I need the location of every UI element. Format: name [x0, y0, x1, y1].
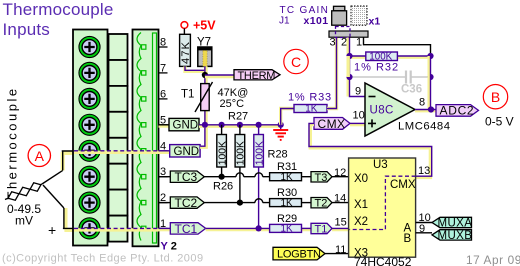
component Y7	[197, 37, 212, 67]
junction output/ADC2	[428, 106, 434, 112]
svg-text:CMX: CMX	[390, 179, 416, 191]
connector Y2 inner outline	[153, 33, 157, 243]
wire output vertical	[429, 56, 430, 109]
wire CMX to op-amp pin 10	[350, 123, 365, 124]
dashed net line pin 4	[74, 151, 170, 153]
capacitor C36 (disabled)	[350, 71, 431, 96]
net label TC3	[159, 170, 205, 184]
svg-text:11: 11	[335, 244, 346, 256]
wire node to THERM label	[205, 75, 234, 77]
junction TC2/R27	[237, 200, 243, 206]
svg-text:8: 8	[160, 37, 166, 49]
jumper J1 header bar	[329, 31, 368, 37]
svg-text:Inputs: Inputs	[3, 20, 51, 39]
svg-text:1K: 1K	[281, 224, 293, 235]
op-amp U8C	[365, 83, 450, 136]
svg-text:8: 8	[419, 97, 425, 109]
svg-text:T1: T1	[315, 224, 328, 236]
resistor R30 1K	[270, 187, 311, 209]
svg-text:mV: mV	[15, 214, 33, 228]
svg-text:100K: 100K	[236, 141, 247, 165]
wire TC3 row	[204, 176, 269, 178]
svg-text:+5V: +5V	[193, 19, 216, 33]
U3 pin B stub	[416, 232, 432, 234]
thermistor T1	[181, 82, 213, 112]
IC U3 74HC4052	[349, 158, 416, 266]
junction R27 top	[237, 122, 243, 128]
svg-text:U3: U3	[373, 159, 388, 171]
net label MUXB	[432, 230, 472, 242]
svg-text:X0: X0	[354, 173, 368, 185]
label 0-49.5 mV	[7, 202, 41, 228]
wire feedback left vertical	[347, 56, 350, 77]
svg-text:1: 1	[356, 37, 362, 49]
connector pin stubs and numbers	[159, 37, 168, 230]
resistor R26 100K	[217, 125, 229, 177]
net label TC1 (highlighted)	[159, 222, 206, 236]
junction C36 left	[346, 74, 352, 80]
net label MUXA	[432, 217, 472, 229]
svg-text:MUXA: MUXA	[438, 218, 473, 230]
svg-text:THERM: THERM	[238, 70, 276, 82]
svg-text:Thermocouple: Thermocouple	[5, 86, 20, 199]
junction R32 left	[346, 53, 352, 59]
svg-text:C: C	[291, 54, 301, 70]
svg-text:CMX: CMX	[318, 117, 346, 131]
svg-text:X1: X1	[354, 199, 368, 211]
U3 internal dashed CMX route	[350, 176, 416, 229]
thermocouple junction diamonds	[8, 183, 41, 200]
svg-text:Y 2: Y 2	[161, 240, 177, 252]
resistor R29 1K (highlighted)	[270, 213, 311, 235]
connector Y2 wavy edge	[137, 33, 141, 241]
thermocouple sensor lead wire	[5, 170, 64, 208]
dashed net line pin 1	[74, 228, 159, 230]
svg-text:U8C: U8C	[370, 105, 394, 117]
junction TC1/R28	[256, 225, 262, 231]
svg-text:47K: 47K	[180, 41, 192, 64]
svg-text:100K: 100K	[254, 141, 265, 165]
wire Y7 to THERM node	[205, 66, 206, 124]
resistor R28 100K (highlighted)	[254, 125, 265, 229]
svg-text:C36: C36	[401, 84, 422, 96]
svg-text:1K: 1K	[305, 104, 317, 115]
svg-text:GND: GND	[174, 146, 200, 158]
U3 pin A stub	[416, 222, 432, 224]
resistor R32 100K feedback	[350, 52, 431, 74]
svg-text:1% R33: 1% R33	[288, 91, 332, 103]
svg-text:T3: T3	[315, 172, 328, 184]
junction TC3/R26	[219, 174, 225, 180]
net label T2	[311, 198, 349, 210]
net label CMX	[314, 117, 350, 131]
svg-text:LMC6484: LMC6484	[398, 120, 450, 132]
jumper J1 selected position dashed box	[336, 27, 351, 38]
wire hop TC3 over R28	[255, 173, 263, 177]
svg-text:7: 7	[160, 62, 166, 74]
net label GND pin5	[159, 118, 200, 131]
svg-text:x1: x1	[369, 15, 381, 27]
power +5V	[181, 19, 216, 35]
wire TC2 row	[204, 202, 269, 204]
svg-text:9: 9	[355, 86, 361, 98]
svg-text:12: 12	[334, 167, 346, 179]
connector Y2 body	[133, 30, 159, 247]
svg-text:T2: T2	[315, 198, 328, 210]
svg-text:74HC4052: 74HC4052	[354, 255, 412, 266]
svg-text:1% R32: 1% R32	[354, 61, 399, 73]
junction T1/GND rail	[202, 122, 208, 128]
svg-text:x101: x101	[304, 15, 329, 27]
net label TC2	[159, 196, 205, 210]
node B marker	[483, 85, 507, 109]
terminal block body	[73, 30, 108, 246]
svg-text:14: 14	[334, 192, 346, 204]
svg-text:T1: T1	[181, 89, 194, 101]
svg-text:J1: J1	[279, 16, 290, 27]
wire hop TC3 over R27	[236, 173, 244, 177]
junction R28 top	[256, 122, 262, 128]
svg-text:3: 3	[330, 37, 336, 49]
svg-text:15: 15	[335, 217, 347, 229]
svg-text:6: 6	[160, 88, 166, 100]
svg-text:MUXB: MUXB	[438, 230, 473, 242]
net label THERM	[234, 70, 280, 82]
svg-text:(c)Copyright Tech Edge Pty. Lt: (c)Copyright Tech Edge Pty. Ltd. 2009	[2, 252, 204, 264]
svg-text:1K: 1K	[281, 198, 293, 209]
connector Y2 contact squares	[142, 45, 146, 231]
svg-text:GND: GND	[173, 120, 199, 132]
wire thermocouple + leg (yellow highlighted)	[62, 151, 74, 170]
svg-text:25°C: 25°C	[220, 98, 245, 110]
junction R26 top	[219, 122, 225, 128]
resistor 47K pullup	[180, 34, 192, 66]
wire hop TC2 over R28	[255, 199, 263, 203]
junction R32 right	[427, 53, 433, 59]
jumper J1 unused position (stipple)	[351, 6, 367, 25]
U8C pin numbers	[353, 86, 426, 122]
node THERM junction	[202, 72, 208, 78]
wire 47K to node	[185, 66, 205, 71]
net label ADC2	[436, 104, 479, 118]
wire TC1 row (highlighted)	[206, 228, 349, 229]
svg-text:X2: X2	[354, 216, 368, 228]
resistor R27 100K	[235, 125, 247, 203]
terminal block clamp cells	[109, 34, 128, 242]
svg-text:13: 13	[418, 165, 430, 177]
svg-text:B: B	[491, 89, 500, 105]
svg-text:0-5 V: 0-5 V	[485, 115, 514, 129]
net label T3	[311, 172, 349, 184]
svg-text:Thermocouple: Thermocouple	[3, 0, 114, 19]
svg-text:LOGBTN: LOGBTN	[277, 249, 321, 261]
svg-text:TC3: TC3	[175, 170, 198, 184]
svg-text:100K: 100K	[217, 141, 228, 165]
svg-text:ADC2: ADC2	[440, 104, 475, 118]
node C marker	[284, 49, 308, 73]
svg-text:B: B	[404, 233, 412, 245]
svg-text:+: +	[48, 222, 56, 238]
wire thermocouple - leg (yellow highlighted)	[63, 208, 74, 230]
svg-text:10: 10	[353, 110, 365, 122]
resistor R31 1K	[270, 161, 311, 183]
ground symbol	[273, 126, 288, 140]
wire J1 pin1 to output (x1)	[364, 38, 431, 57]
svg-text:17 Apr 09: 17 Apr 09	[466, 253, 520, 266]
junction C36 right	[427, 74, 433, 80]
wire op-amp output	[415, 110, 436, 111]
net label T1 (highlighted)	[311, 223, 349, 235]
resistor R33 1K (gain set)	[281, 38, 337, 125]
terminal screws x8	[79, 37, 100, 239]
jumper J1 labels	[279, 5, 380, 27]
svg-text:10: 10	[419, 212, 431, 224]
svg-text:TC1: TC1	[175, 222, 198, 236]
jumper J1 pin numbers 3 2 1	[330, 37, 363, 49]
wire J1 pin2 to feedback node	[348, 38, 365, 97]
net label GND pin4	[159, 125, 207, 158]
svg-text:2: 2	[341, 37, 347, 49]
label 47K@25C	[218, 87, 249, 110]
title Thermocouple Inputs	[3, 0, 114, 39]
wire CMX loop to U3 pin13	[309, 123, 432, 177]
jumper J1 shunt cap	[332, 6, 347, 25]
svg-text:1K: 1K	[281, 172, 293, 183]
svg-text:9: 9	[419, 223, 425, 235]
svg-text:R26: R26	[213, 181, 233, 193]
svg-text:R28: R28	[268, 149, 288, 161]
node A marker	[28, 145, 50, 167]
net label LOGBTN	[273, 247, 349, 260]
svg-text:A: A	[35, 148, 45, 164]
junction ground tap	[278, 122, 284, 128]
wire GND rail	[199, 125, 281, 126]
svg-text:TC2: TC2	[175, 196, 198, 210]
svg-text:R27: R27	[228, 111, 248, 123]
